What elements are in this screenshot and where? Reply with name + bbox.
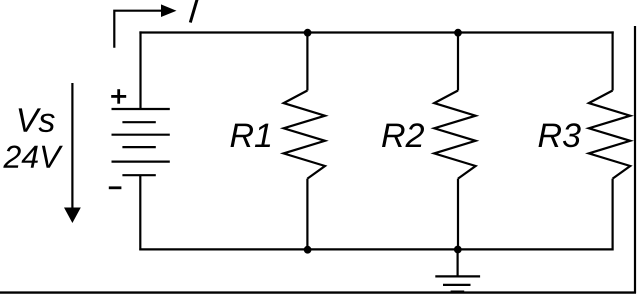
- junction dot: R2 top: [454, 29, 462, 37]
- ground: [435, 250, 480, 292]
- value label 24V: [3, 146, 63, 168]
- wire: bottom rail: [139, 248, 613, 250]
- resistor R3: [589, 31, 630, 250]
- wire: top rail: [139, 31, 613, 33]
- wire: battery positive lead: [139, 31, 141, 109]
- label R1: [231, 124, 271, 147]
- junction dot: R1 bottom: [304, 246, 312, 254]
- junction dot: R2 bottom: [454, 246, 462, 254]
- junction dot: R1 top: [304, 29, 312, 37]
- resistor R1: [284, 33, 325, 250]
- battery - polarity mark: [109, 186, 122, 189]
- label Vs: [19, 108, 55, 132]
- voltage reference arrow (Vs): [64, 83, 81, 223]
- current arrow I: [114, 4, 176, 47]
- label R3: [539, 123, 581, 147]
- label R2: [382, 123, 424, 147]
- label I: [190, 0, 197, 23]
- resistor R2: [434, 33, 475, 250]
- battery B1 (Vs) plates: [112, 109, 170, 175]
- battery + polarity mark: [111, 89, 126, 104]
- border: bottom edge: [0, 291, 636, 293]
- wire: battery negative lead: [139, 175, 141, 250]
- border: right edge: [634, 26, 636, 293]
